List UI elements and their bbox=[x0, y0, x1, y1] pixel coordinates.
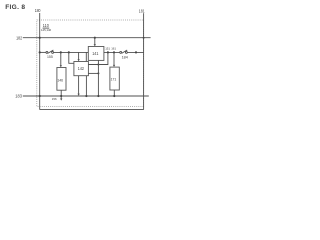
wire: switch 184 to right rail bbox=[127, 51, 143, 53]
svg-text:180: 180 bbox=[35, 8, 41, 13]
junction dot 171 drop bbox=[113, 95, 115, 97]
wire: rail 182 horizontal bbox=[23, 37, 151, 39]
svg-text:142: 142 bbox=[78, 66, 85, 71]
dashed block 110 boundary bbox=[37, 20, 144, 107]
switch 155 blade bbox=[48, 50, 53, 53]
switch 184 right contact bbox=[125, 51, 127, 53]
wire: block142 bottom drop 2 bbox=[85, 76, 87, 96]
svg-text:155: 155 bbox=[47, 54, 53, 59]
wire: bottom outer rail bbox=[40, 109, 144, 111]
junction dot at 136 bbox=[135, 51, 137, 53]
wire: drop into block 142 top bbox=[78, 52, 80, 59]
wire: block142 right to railB riser bbox=[88, 52, 108, 64]
svg-text:182: 182 bbox=[16, 36, 22, 41]
svg-text:141: 141 bbox=[92, 51, 99, 56]
wire: drop into block 171 bbox=[113, 52, 115, 65]
arrowhead into block 171 bbox=[113, 65, 115, 67]
junction dot rail182/left rail bbox=[39, 37, 41, 39]
junction dot 142 drop2 bbox=[85, 95, 87, 97]
svg-text:146: 146 bbox=[57, 78, 63, 82]
svg-text:183: 183 bbox=[15, 93, 22, 98]
wire: drop to block 146 bbox=[60, 52, 62, 65]
svg-text:FIG. 8: FIG. 8 bbox=[5, 4, 25, 11]
svg-text:181: 181 bbox=[139, 9, 145, 14]
wire: block142 bottom drop arrow bbox=[78, 76, 80, 94]
wire: railB from switch to block 141 bbox=[54, 51, 89, 53]
junction dot above block 171 bbox=[113, 51, 115, 53]
switch 184 left contact bbox=[120, 51, 122, 53]
svg-text:171: 171 bbox=[111, 77, 117, 81]
junction dot rail182/right rail bbox=[143, 37, 145, 39]
wire: bottom rail 183 bbox=[23, 95, 149, 97]
switch 155 right contact bbox=[52, 51, 54, 53]
wire: drop into block 141 bbox=[94, 38, 96, 45]
block 141 bbox=[88, 47, 104, 61]
wire: left vertical rail 180 bbox=[39, 13, 41, 110]
svg-text:184: 184 bbox=[122, 54, 129, 59]
junction dot above block 142 bend bbox=[68, 51, 70, 53]
junction dot 141 drop bbox=[97, 95, 99, 97]
switch 184 blade bbox=[122, 50, 127, 53]
junction dot link73/drop98 bbox=[97, 72, 99, 74]
svg-text:156: 156 bbox=[52, 97, 57, 101]
wire: railB right segment bbox=[104, 51, 120, 53]
junction dot rail182 above U141 bbox=[94, 37, 96, 39]
wire: rail B left segment bbox=[40, 51, 46, 53]
junction dot railB riser bbox=[107, 51, 109, 53]
junction dot above block 146 bbox=[60, 51, 62, 53]
junction dot 146 drop bbox=[60, 95, 62, 97]
wire: block142 right lower link bbox=[88, 72, 98, 74]
junction dot wire64/drop98 bbox=[97, 64, 99, 66]
block 171 bbox=[110, 67, 119, 90]
svg-text:151: 151 bbox=[105, 46, 110, 50]
wire: block141 bottom drop to bottom rail bbox=[97, 60, 99, 96]
block 142 bbox=[74, 62, 89, 76]
junction dot rail183/left rail bbox=[39, 95, 41, 97]
switch 155 left contact bbox=[46, 51, 48, 53]
block 146 bbox=[57, 68, 66, 91]
arrowhead into block 141 bbox=[94, 44, 96, 46]
junction dot railB/left rail bbox=[39, 51, 41, 53]
wire: block146 bottom drop with arrow bbox=[60, 90, 62, 99]
svg-text:161: 161 bbox=[111, 46, 116, 50]
wire: block171 bottom drop bbox=[113, 90, 115, 96]
arrowhead into block 146 bbox=[60, 65, 62, 67]
wire: L bend into block 142 left bbox=[69, 52, 74, 63]
wire: block 142 top to railB bbox=[85, 52, 87, 61]
arrowhead below rail at 146 drop bbox=[60, 99, 62, 101]
arrowhead into block 142 bbox=[78, 59, 80, 61]
svg-text:145,146: 145,146 bbox=[41, 28, 52, 32]
wire: right vertical rail 181 bbox=[143, 13, 145, 109]
arrowhead onto bottom rail bbox=[78, 94, 80, 96]
